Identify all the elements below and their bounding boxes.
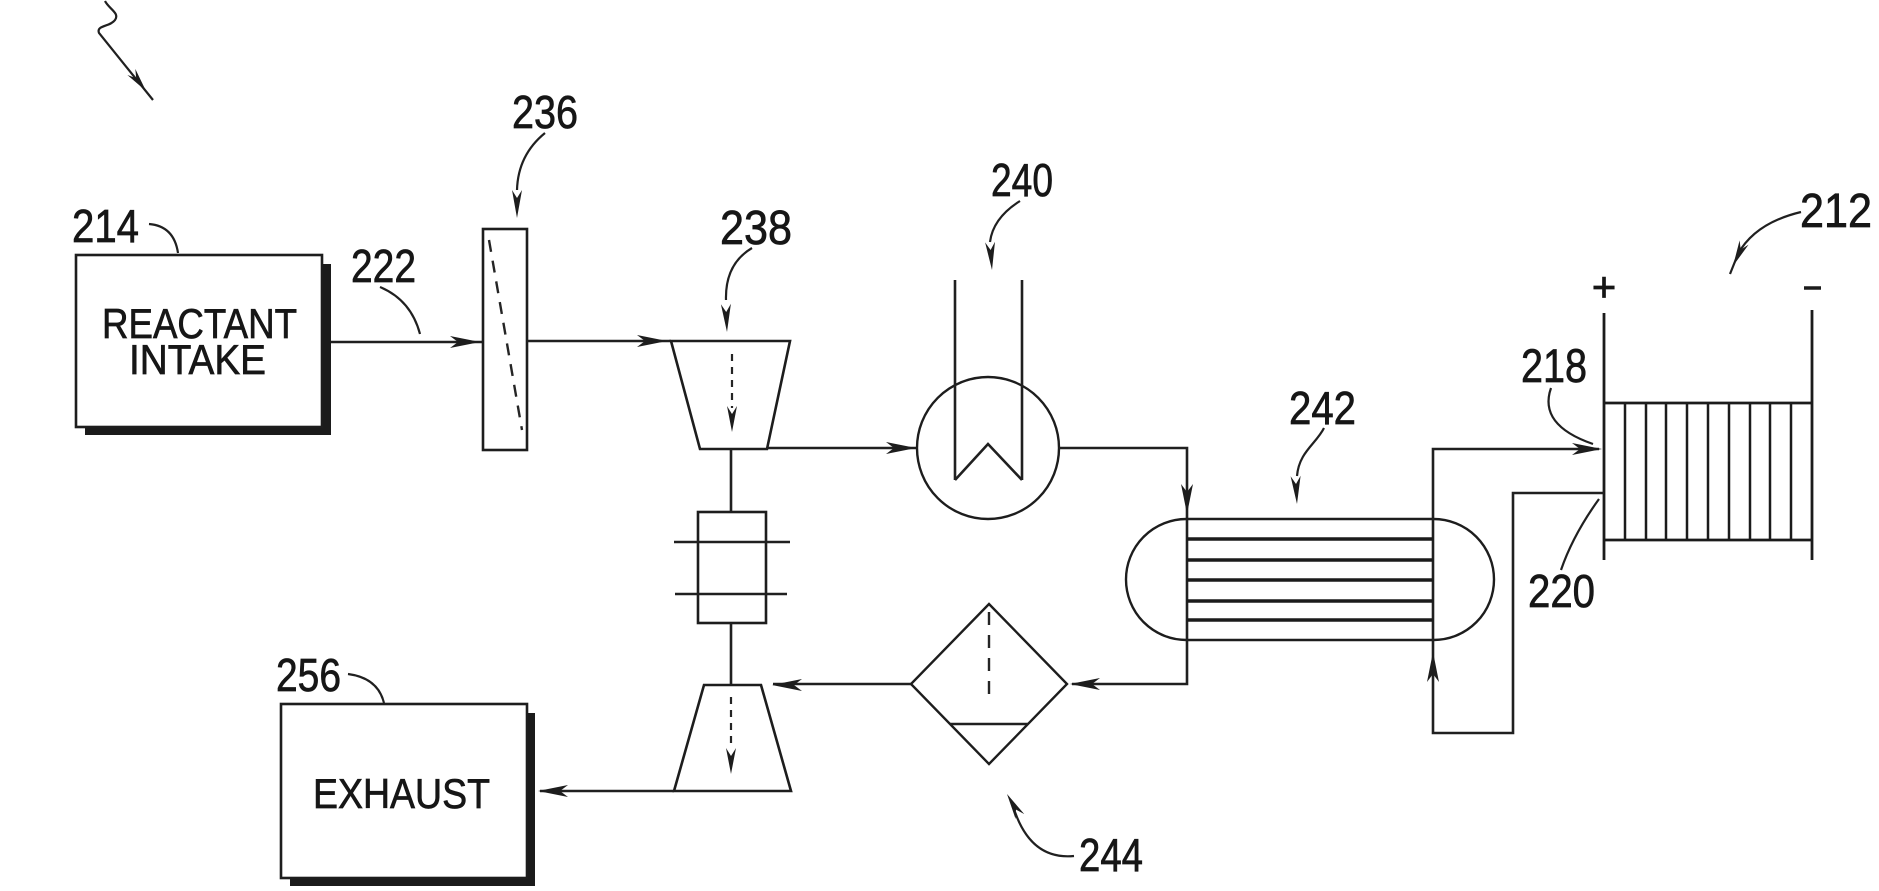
- box 256 EXHAUST: [281, 704, 535, 886]
- wire 244 to turbine: [772, 679, 911, 691]
- minus terminal: [1804, 286, 1821, 290]
- wire 222: [331, 336, 483, 348]
- box 214 REACTANT INTAKE: [76, 255, 331, 435]
- svg-text:256: 256: [276, 649, 341, 701]
- svg-text:INTAKE: INTAKE: [129, 336, 266, 383]
- compressor 238: [671, 341, 790, 449]
- svg-text:236: 236: [512, 86, 578, 138]
- shaft upper: [730, 449, 733, 512]
- svg-text:+: +: [1592, 263, 1617, 310]
- separator 244: [911, 604, 1067, 764]
- wire 238 to 240: [767, 442, 917, 454]
- label 214: [72, 200, 178, 253]
- heat exchanger 240: [917, 280, 1059, 519]
- label 242: [1289, 382, 1356, 504]
- svg-text:240: 240: [991, 154, 1053, 206]
- label 220: [1528, 499, 1599, 617]
- shaft lower: [730, 623, 733, 685]
- svg-text:218: 218: [1521, 339, 1587, 392]
- wire 220 (stack to 242): [1427, 493, 1604, 733]
- label 212: [1730, 185, 1872, 274]
- label 256: [276, 649, 384, 703]
- wire 218 (242 to stack): [1433, 443, 1602, 519]
- label 238: [720, 202, 792, 332]
- svg-text:EXHAUST: EXHAUST: [313, 770, 490, 817]
- label 222: [351, 240, 420, 334]
- fuel cell stack 212: [1592, 263, 1821, 560]
- svg-text:214: 214: [72, 200, 139, 252]
- label 244: [1007, 794, 1143, 881]
- filter 236: [483, 229, 527, 450]
- svg-text:244: 244: [1079, 829, 1143, 881]
- svg-text:220: 220: [1528, 565, 1595, 617]
- wire 240 to 242: [1059, 448, 1193, 519]
- svg-text:212: 212: [1800, 185, 1872, 238]
- figure leader arrow: [99, 1, 153, 100]
- label 218: [1521, 339, 1593, 444]
- label 240: [985, 154, 1053, 270]
- svg-text:238: 238: [720, 202, 792, 255]
- label 236: [512, 86, 578, 218]
- heat exchanger 242: [1126, 519, 1494, 640]
- turbine: [674, 685, 791, 791]
- svg-text:222: 222: [351, 240, 416, 292]
- svg-text:242: 242: [1289, 382, 1356, 434]
- wire 236 to 238: [527, 335, 671, 347]
- wire 242 to 244: [1070, 640, 1187, 690]
- shaft coupling: [674, 512, 790, 623]
- wire turbine to exhaust: [538, 785, 674, 797]
